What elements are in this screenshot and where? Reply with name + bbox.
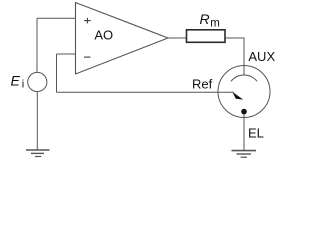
svg-text:m: m	[210, 18, 220, 30]
wire: plus-input horizontal	[37, 17, 76, 19]
wire: op-amp output	[168, 37, 187, 39]
resistor R_m	[187, 30, 226, 43]
svg-text:i: i	[22, 78, 24, 90]
wire: Ref horizontal line	[57, 91, 234, 93]
ground (right)	[232, 151, 257, 158]
wire: minus-input horizontal	[57, 53, 76, 55]
auxiliary electrode arc	[231, 75, 257, 81]
wire: resistor to cell top	[225, 38, 244, 75]
svg-text:E: E	[11, 72, 21, 88]
reference electrode arrowhead	[232, 92, 243, 100]
wire: left vertical to source top	[36, 18, 38, 72]
wire: source bottom to ground	[36, 92, 38, 150]
svg-text:R: R	[200, 11, 210, 27]
voltage source E_i circle	[28, 72, 47, 91]
svg-text:EL: EL	[248, 125, 264, 140]
ground (left)	[26, 150, 50, 157]
cell circle	[218, 66, 270, 118]
svg-text:AO: AO	[94, 27, 113, 42]
working electrode dot	[241, 109, 247, 115]
wire: feedback vertical	[56, 54, 58, 92]
svg-text:AUX: AUX	[248, 49, 275, 64]
wire: cell bottom to ground	[243, 114, 245, 150]
op-amp plus input sign	[84, 18, 91, 24]
svg-text:Ref: Ref	[192, 76, 213, 91]
op-amp minus input sign	[84, 56, 90, 58]
op-amp U1 (AO)	[76, 3, 169, 75]
